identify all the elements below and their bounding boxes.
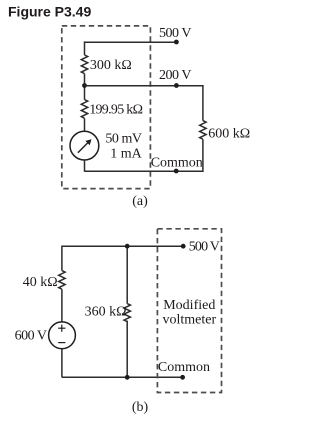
terminal node Common dot (a) — [174, 169, 179, 174]
svg-text:40 kΩ: 40 kΩ — [23, 275, 58, 290]
wire: left vertical top segment (b) — [61, 246, 63, 271]
wire: right vertical lower segment (a) — [202, 139, 204, 172]
svg-text:1 mA: 1 mA — [110, 146, 142, 161]
voltmeter enclosure dashed box (a) — [62, 26, 151, 189]
svg-text:200 V: 200 V — [159, 68, 191, 83]
terminal node 500 V dot (a) — [174, 40, 179, 45]
source plus sign — [58, 325, 65, 332]
junction node dot between resistors (a) — [82, 83, 87, 88]
source minus sign — [58, 342, 65, 344]
wire: middle vertical upper segment (b) — [126, 246, 128, 303]
junction node dot top of 360k branch (b) — [125, 244, 130, 249]
svg-text:600 V: 600 V — [15, 329, 47, 344]
resistor 360 kOhm (b) — [124, 304, 130, 322]
svg-text:(a): (a) — [132, 194, 148, 209]
svg-text:Modified: Modified — [163, 298, 215, 313]
svg-text:Common: Common — [151, 156, 203, 171]
svg-text:360 kΩ: 360 kΩ — [85, 305, 127, 320]
wire: bottom horizontal Common wire (a) — [85, 170, 204, 172]
svg-text:500 V: 500 V — [159, 26, 191, 41]
svg-text:199.95 kΩ: 199.95 kΩ — [89, 103, 142, 118]
voltage source 600 V circle (b) — [49, 322, 76, 349]
resistor 199.95 kOhm (a) — [81, 100, 87, 119]
wire: left vertical top segment (a) — [84, 41, 86, 55]
meter (d'Arsonval movement) circle — [70, 131, 99, 160]
terminal node 200 V dot (a) — [174, 83, 179, 88]
svg-text:voltmeter: voltmeter — [162, 312, 216, 327]
svg-text:Common: Common — [158, 360, 210, 375]
svg-text:600 kΩ: 600 kΩ — [208, 126, 250, 141]
wire: left vertical below meter (a) — [84, 160, 86, 172]
svg-text:Figure P3.49: Figure P3.49 — [8, 4, 91, 20]
wire: middle horizontal from junction to right branch through 200 V terminal (a) — [85, 85, 204, 87]
terminal node 500 V dot (b) — [181, 244, 186, 249]
svg-text:500 V: 500 V — [189, 240, 220, 255]
modified voltmeter dashed box (b) — [157, 229, 221, 393]
svg-text:50 mV: 50 mV — [105, 132, 142, 147]
resistor 600 kOhm (a) — [200, 121, 206, 140]
wire: middle vertical lower segment (b) — [126, 321, 128, 378]
wire: top horizontal (b) — [62, 245, 183, 247]
resistor 40 kOhm (b) — [59, 271, 65, 290]
junction node dot bottom of 360k branch (b) — [125, 375, 130, 380]
wire: left vertical below source (b) — [61, 349, 63, 378]
wire: left vertical between 40k and source (b) — [61, 289, 63, 322]
wire: left vertical between 300k and 199.95k (a) — [84, 74, 86, 100]
terminal node Common dot (b) — [180, 375, 185, 380]
resistor 300 kOhm (a) — [81, 55, 87, 74]
svg-text:(b): (b) — [132, 400, 149, 415]
wire: right vertical upper segment (a) — [202, 85, 204, 121]
svg-text:300 kΩ: 300 kΩ — [90, 58, 132, 73]
wire: left vertical between 199.95k and meter (a) — [84, 118, 86, 131]
wire: bottom horizontal (b) — [62, 376, 183, 378]
meter needle arrow — [78, 139, 92, 153]
wire: top horizontal from left branch to 500 V terminal (a) — [85, 41, 177, 43]
